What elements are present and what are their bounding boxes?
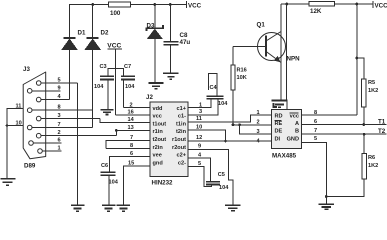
capacitor C6 <box>101 163 119 205</box>
svg-text:1: 1 <box>257 110 260 116</box>
svg-text:D89: D89 <box>24 163 36 170</box>
svg-text:B: B <box>295 129 299 135</box>
power VCC mid (above C3/C7) <box>107 43 122 69</box>
svg-text:J2: J2 <box>146 94 153 101</box>
HIN232 pin 7 (t2out) <box>106 135 150 149</box>
transistor Q1 <box>233 22 300 63</box>
svg-text:3: 3 <box>199 109 202 115</box>
wire top rail left <box>70 5 109 38</box>
svg-text:10K: 10K <box>237 75 247 81</box>
ground for HIN232 pin15 <box>116 205 129 211</box>
wire rail branch down to MAX485 top <box>286 4 288 100</box>
MAX485 pin 5 (GND) wire <box>302 136 327 204</box>
svg-text:c2-: c2- <box>178 160 186 166</box>
svg-text:D1: D1 <box>78 30 86 37</box>
svg-text:vcc: vcc <box>153 114 162 120</box>
svg-text:MAX485: MAX485 <box>272 153 297 160</box>
svg-text:9: 9 <box>58 85 61 91</box>
svg-text:NPN: NPN <box>287 56 301 63</box>
ground for C8 <box>163 73 178 79</box>
svg-text:7: 7 <box>314 128 317 134</box>
svg-text:c1+: c1+ <box>177 106 187 112</box>
ground for pin9 wire <box>225 205 241 211</box>
MAX485 pin 3 (DE) wire <box>240 125 272 135</box>
IC U2 MAX485 body <box>272 110 302 160</box>
resistor R16 10K <box>231 46 247 126</box>
svg-text:12K: 12K <box>310 8 322 15</box>
MAX485 pin 6 (A) wire to T1 <box>302 119 387 126</box>
HIN232 pin 2 (vdd) <box>124 103 150 109</box>
svg-text:vee: vee <box>153 153 162 159</box>
svg-text:D2: D2 <box>101 30 109 37</box>
MAX485 pin 7 (B) wire to T2 <box>302 128 387 136</box>
svg-text:104: 104 <box>109 180 119 186</box>
svg-text:r2in: r2in <box>153 145 164 151</box>
MAX485 pin text rows <box>275 113 300 143</box>
HIN232 pin 16 (vcc) <box>116 109 150 115</box>
svg-text:gnd: gnd <box>153 160 164 166</box>
HIN232 pin 4 (c2+) <box>188 152 210 181</box>
svg-text:VCC: VCC <box>188 3 202 10</box>
svg-text:r1in: r1in <box>153 129 164 135</box>
J3 pin 3 <box>36 113 100 121</box>
svg-text:11: 11 <box>196 116 202 122</box>
svg-text:r2out: r2out <box>172 145 186 151</box>
svg-text:VCC: VCC <box>375 3 387 10</box>
svg-text:104: 104 <box>125 84 135 90</box>
ground for J3 shell <box>0 179 15 185</box>
svg-text:RE: RE <box>275 121 283 127</box>
svg-text:D3: D3 <box>147 23 155 30</box>
svg-text:DE: DE <box>275 129 283 135</box>
capacitor C5 <box>206 172 229 191</box>
svg-text:C5: C5 <box>218 172 225 178</box>
svg-text:DI: DI <box>275 137 281 143</box>
svg-text:5: 5 <box>314 136 317 142</box>
svg-text:104: 104 <box>94 84 104 90</box>
resistor R 100 <box>109 2 131 7</box>
svg-text:t1in: t1in <box>176 121 187 127</box>
wire top rail right (Q1 collector to VCC) <box>281 3 309 5</box>
power VCC top-left rail <box>186 1 188 8</box>
HIN232 pin 11 (t1in) wire to MAX485 RD <box>188 115 272 122</box>
svg-text:6: 6 <box>58 138 61 144</box>
connector J3 DB9 shell <box>23 66 46 170</box>
HIN232 pin 15 (gnd) <box>124 161 151 205</box>
HIN232 pin 10 (t2in) wire <box>188 125 227 143</box>
wire J3 pin5 to ground <box>77 83 79 205</box>
svg-text:t2out: t2out <box>153 137 167 143</box>
wire VCC down to pin16 <box>115 69 117 115</box>
svg-text:R5: R5 <box>368 80 375 86</box>
J3 pin 2 <box>36 130 116 138</box>
svg-text:100: 100 <box>110 10 121 17</box>
node junction D3 top <box>153 3 156 6</box>
svg-text:8: 8 <box>58 105 61 111</box>
capacitor C8 47u <box>164 5 191 74</box>
J3 pin 5 <box>36 78 77 86</box>
J3 shell pin 10 <box>6 121 24 127</box>
HIN232 pin 9 (r2out) wire to ground <box>188 144 233 206</box>
J3 pin 1 <box>38 146 62 154</box>
J3 pin 9 <box>27 85 60 93</box>
wire top rail right of resistor <box>131 4 187 6</box>
power VCC top-right <box>372 1 374 8</box>
svg-text:T2: T2 <box>378 128 386 135</box>
svg-text:1: 1 <box>58 146 61 152</box>
svg-text:J3: J3 <box>23 66 30 73</box>
svg-text:T1: T1 <box>378 119 386 126</box>
svg-text:1K2: 1K2 <box>368 88 378 94</box>
svg-text:1K2: 1K2 <box>368 163 378 169</box>
svg-text:HIN232: HIN232 <box>152 180 174 187</box>
svg-text:5: 5 <box>58 78 61 84</box>
J3 pin 6 <box>29 138 62 146</box>
HIN232 pin 1 (c1+) <box>188 99 211 109</box>
svg-text:C8: C8 <box>180 32 188 39</box>
capacitor C3 <box>94 64 114 110</box>
svg-text:vdd: vdd <box>153 106 164 112</box>
svg-text:3: 3 <box>58 113 61 119</box>
HIN232 pin text rows <box>153 106 187 167</box>
ground for D3 <box>148 83 163 89</box>
svg-text:Q1: Q1 <box>257 22 266 29</box>
wire VCC split bracket <box>108 69 124 77</box>
diode D2 <box>84 5 109 128</box>
capacitor C4 <box>207 73 229 107</box>
HIN232 pin 14 (t1out) wire from J3 pin3 <box>100 117 150 123</box>
J3 shell pin 11 <box>7 104 23 179</box>
svg-text:t2in: t2in <box>176 129 187 135</box>
svg-text:R16: R16 <box>237 68 247 74</box>
resistor R5 1K2 <box>357 58 378 125</box>
svg-text:C3: C3 <box>100 64 107 70</box>
J3 pin 7 <box>27 122 92 130</box>
node junction rail to R5/pin8 <box>356 3 359 6</box>
ground bars at Q1 emitter <box>272 100 288 107</box>
HIN232 pin 13 (r1in) wire from J3 pin2 <box>115 125 150 136</box>
svg-text:C6: C6 <box>101 163 108 169</box>
svg-text:r1out: r1out <box>172 137 186 143</box>
HIN232 pin 3 (c1-) <box>188 99 218 115</box>
HIN232 pin 8 (r2in) <box>106 143 150 149</box>
diode D3 (zener) <box>147 5 164 83</box>
svg-text:GND: GND <box>287 137 299 143</box>
svg-text:47u: 47u <box>180 39 191 46</box>
svg-text:C7: C7 <box>124 64 131 70</box>
node junction R5 branch <box>356 57 359 60</box>
HIN232 pin 6 (vee) <box>110 151 150 172</box>
svg-text:12: 12 <box>196 135 202 141</box>
diode D1 <box>61 5 86 100</box>
svg-text:t1out: t1out <box>153 121 167 127</box>
svg-text:A: A <box>295 121 299 127</box>
IC U-J2 HIN232 body <box>146 94 188 187</box>
svg-text:9: 9 <box>198 144 201 150</box>
ground for J3 pin5 <box>71 205 85 211</box>
svg-text:R6: R6 <box>368 155 375 161</box>
svg-text:7: 7 <box>58 122 61 128</box>
resistor R6 1K2 <box>326 134 378 196</box>
svg-text:c2+: c2+ <box>177 153 187 159</box>
J3 pin 4 <box>36 94 69 102</box>
svg-text:RD: RD <box>275 114 283 120</box>
svg-text:C4: C4 <box>210 85 218 91</box>
resistor 12K <box>309 2 335 7</box>
svg-text:vcc: vcc <box>290 114 299 120</box>
node junction C8 top <box>169 3 172 6</box>
svg-text:c1-: c1- <box>178 114 186 120</box>
svg-text:2: 2 <box>58 130 61 136</box>
HIN232 pin 5 (c2-) <box>188 161 212 187</box>
J3 pin 8 <box>27 105 92 113</box>
MAX485 pin 2 (RE) wire <box>233 120 272 127</box>
HIN232 pin 12 (r1out) wire to MAX485 DI <box>188 135 272 141</box>
ground for C3 <box>101 110 114 115</box>
wire rail down to MAX485 pin8 <box>356 4 358 115</box>
ground for MAX485 pin5 <box>319 204 335 209</box>
node junction D2 top <box>91 3 94 6</box>
svg-text:104: 104 <box>219 185 229 191</box>
MAX485 pin 8 (vcc) wire <box>302 110 357 116</box>
ground for C6 <box>102 205 116 211</box>
wire Q1 collector-emitter to rail and ground bars <box>280 4 282 100</box>
node junction R6 to gnd wire <box>325 195 328 198</box>
capacitor C7 <box>121 64 135 108</box>
svg-text:104: 104 <box>218 101 228 107</box>
